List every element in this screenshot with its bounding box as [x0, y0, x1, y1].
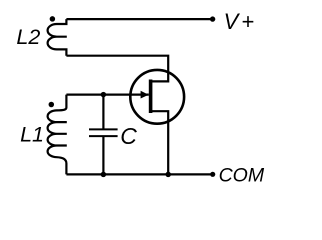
svg-text:L1: L1 [20, 123, 44, 147]
svg-text:C: C [120, 123, 137, 149]
svg-text:V+: V+ [224, 9, 258, 34]
svg-text:COM: COM [219, 164, 265, 186]
svg-text:L2: L2 [16, 25, 40, 49]
